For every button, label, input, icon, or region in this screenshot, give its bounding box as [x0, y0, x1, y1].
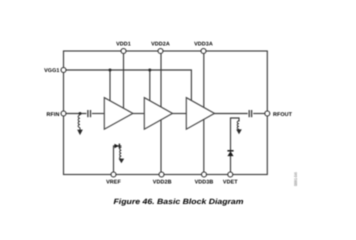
- pin VDD3B: [202, 172, 207, 177]
- wire amp2 out to amp3 in: [172, 113, 187, 115]
- inductor choke L1 below RFIN node: [78, 115, 80, 130]
- pin VREF: [111, 172, 116, 177]
- diode D2 on VREF branch: [114, 144, 119, 149]
- amplifier A2: [144, 98, 172, 130]
- wire amp3 out to C2: [214, 113, 248, 115]
- wire VGG1 bus: [64, 70, 192, 104]
- node dot on VGG1 bus at amp2 gate: [148, 69, 151, 72]
- svg-text:VDD3A: VDD3A: [194, 42, 213, 48]
- wire C2 to RFOUT: [253, 113, 265, 115]
- wire C1 to amp1: [92, 113, 104, 115]
- amplifier A3: [186, 98, 214, 130]
- svg-text:VDD3B: VDD3B: [195, 180, 214, 186]
- pin VDET: [228, 172, 233, 177]
- svg-text:VDD2B: VDD2B: [153, 180, 172, 186]
- svg-text:Figure 46. Basic Block Diagram: Figure 46. Basic Block Diagram: [114, 197, 244, 206]
- svg-text:VGG1: VGG1: [44, 68, 59, 74]
- wire gate drop amp2: [149, 70, 151, 104]
- inductor choke L3 on VREF branch: [120, 147, 122, 159]
- wire VREF branch: [114, 146, 122, 172]
- pin VDD2A: [158, 49, 163, 54]
- pin VDD1: [121, 49, 126, 54]
- wire RFIN segment: [64, 113, 87, 115]
- wire detector coupled section: [231, 118, 240, 172]
- capacitor C2 plates: [248, 110, 250, 117]
- wire VDD2A to VDD2B: [160, 51, 162, 175]
- pin RFOUT: [265, 111, 270, 116]
- wire VDD1 drop: [123, 51, 125, 111]
- wire VDD3A to VDD3B: [203, 51, 205, 175]
- capacitor C1 plates: [87, 110, 89, 117]
- pin VDD2B: [159, 172, 164, 177]
- wire gate drop amp1: [109, 70, 111, 104]
- chip outer border: [64, 51, 268, 175]
- pin VGG1: [61, 68, 66, 73]
- svg-text:VDET: VDET: [223, 180, 238, 186]
- node dot on VGG1 bus at amp1 gate: [109, 69, 112, 72]
- svg-text:VREF: VREF: [106, 180, 121, 186]
- inductor choke L2 on detector right leg: [237, 121, 239, 130]
- amplifier A1: [104, 98, 133, 130]
- pin RFIN: [61, 111, 66, 116]
- svg-text:RFOUT: RFOUT: [273, 112, 293, 118]
- svg-text:RFIN: RFIN: [47, 112, 60, 118]
- diode D1 above VDET: [227, 150, 233, 152]
- svg-text:VDD2A: VDD2A: [151, 42, 170, 48]
- node dot on RFIN wire: [79, 112, 82, 115]
- pin VDD3A: [201, 49, 206, 54]
- wire amp1 out to amp2 in: [132, 113, 144, 115]
- svg-text:08861-046: 08861-046: [293, 172, 298, 186]
- svg-text:VDD1: VDD1: [116, 42, 131, 48]
